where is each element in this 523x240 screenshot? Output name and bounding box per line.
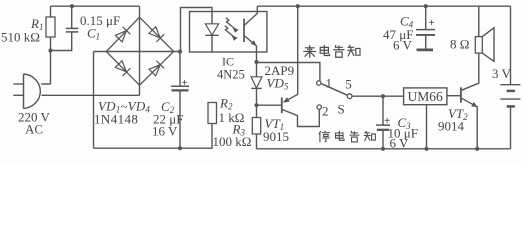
wire plug upper terminal [41,51,50,85]
svg-text:16 V: 16 V [152,124,178,139]
node C3 bottom on bus [381,147,385,151]
capacitor C2 [179,52,181,86]
wire bottom bus left segment [94,124,213,149]
plug 220V AC [23,74,25,109]
svg-text:+: + [384,115,390,127]
svg-text:9014: 9014 [438,119,465,134]
capacitor C1 [51,32,72,51]
node C3 top junction [381,94,385,98]
svg-text:4N25: 4N25 [217,68,245,82]
wire bridge horizontal diagonal / ground tie [94,51,181,53]
svg-text:1: 1 [326,76,333,91]
switch S [317,81,321,85]
svg-text:510 kΩ: 510 kΩ [1,30,40,45]
resistor R3 [256,105,258,117]
wire pole to UM66 [352,95,403,97]
svg-text:+: + [182,77,188,89]
op-amp U1 4N25 optocoupler box [190,12,267,53]
transistor VT1 9015 [257,104,282,106]
svg-text:5: 5 [345,77,352,92]
bridge rectifier VD1~VD4 diamond [106,17,173,85]
node C4 branch on bus [424,4,428,8]
diode VD2 (top-right edge) [149,26,165,42]
wire ground column left [93,52,95,149]
diode VD5 2AP9 [256,62,258,77]
LED inside 4N25 [211,12,213,24]
speaker 8 ohm [478,6,480,36]
wire bridge vertical diagonal [139,6,141,95]
svg-text:6 V: 6 V [390,136,410,151]
resistor R1 [50,6,52,17]
svg-text:2: 2 [322,104,329,119]
diode VD1 (top-left edge) [115,27,131,43]
node bridge output junction [178,50,182,54]
wire emitter branch to switch contact 1 [257,63,320,81]
node VT1 emitter branch on bus [296,4,300,8]
node opto emitter junction [254,60,258,64]
svg-text:IC: IC [222,55,234,69]
svg-text:8 Ω: 8 Ω [450,36,469,51]
text 停电告知 [319,131,376,143]
battery 3V [510,6,512,84]
node VT2 emitter on bus [475,147,479,151]
node C1 top junction [70,4,74,8]
resistor R2 box [208,103,217,124]
svg-text:3 V: 3 V [492,66,512,81]
wire bottom bus right segment [257,148,511,150]
wire optocoupler feed [181,8,213,52]
node VD5/R3/VT1-base junction [254,103,258,107]
wire top bus right [257,5,510,7]
light arrows inside 4N25 [225,18,235,37]
wire top bus left [51,5,140,7]
capacitor C3 [382,96,384,125]
svg-text:S: S [338,102,345,117]
diode VD3 (bottom-left edge) [115,60,131,76]
svg-text:9015: 9015 [263,129,289,144]
svg-text:AC: AC [25,122,43,137]
node C2 bottom junction [178,146,182,150]
svg-text:100 kΩ: 100 kΩ [213,134,252,149]
diode VD4 (bottom-right edge) [149,61,165,77]
svg-text:6 V: 6 V [393,38,413,53]
capacitor C4 [425,6,427,29]
wire plug lower terminal to bridge bottom [41,94,139,96]
svg-text:1 kΩ: 1 kΩ [219,110,245,125]
IC UM66 [404,88,447,105]
svg-text:1N4148: 1N4148 [94,111,138,126]
svg-text:+: + [429,17,435,29]
phototransistor inside 4N25 [243,19,245,43]
transistor VT2 9014 [447,95,460,97]
svg-text:UM66: UM66 [408,89,444,104]
node UM66 ground on bus [424,147,428,151]
node R1/C1/plug junction [48,48,52,52]
text 来电告知 [303,45,360,58]
